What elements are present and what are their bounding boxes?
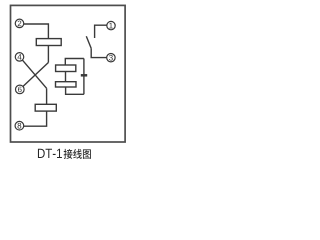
wire diagonal from terminal 4 down to coil R2 — [22, 60, 46, 88]
damper winding W1 (upper middle rect) — [56, 65, 76, 72]
caption text DT-1 — [38, 149, 62, 158]
damper assembly bottom wire — [66, 87, 84, 94]
damper assembly top wire — [65, 59, 84, 66]
terminal 4 — [15, 53, 24, 62]
wire coil R2 to terminal 8 — [24, 111, 47, 126]
caption text 接线图 — [64, 149, 91, 159]
terminal 3 — [107, 54, 115, 62]
wire moving contact to terminal 3 — [91, 48, 107, 57]
terminal 6 — [15, 85, 24, 94]
capacitor C1 bar on right branch — [81, 74, 87, 77]
damper winding W2 (lower middle rect) — [56, 82, 77, 87]
coil R1 (upper left coil) — [36, 39, 61, 46]
wire terminal 1 to fixed contact — [95, 25, 107, 38]
terminal 1 — [107, 21, 115, 29]
relay case outline — [11, 5, 126, 142]
wire terminal 2 to coil R1 — [24, 24, 49, 39]
contact blade K (open, leaning left) — [86, 36, 91, 48]
wire between windings — [65, 72, 67, 82]
terminal 2 — [15, 19, 24, 28]
wire coil R1 down — [47, 46, 49, 63]
coil R2 (lower left coil) — [35, 104, 56, 111]
wire down to coil R2 — [46, 88, 48, 104]
wire diagonal down to terminal 6 — [23, 63, 49, 87]
right parallel branch — [83, 59, 85, 95]
terminal 8 — [15, 121, 24, 130]
